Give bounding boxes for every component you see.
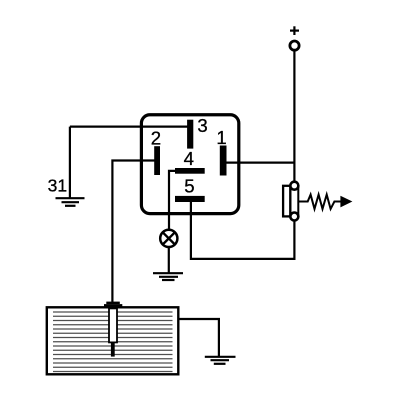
svg-text:31: 31 [48,176,67,196]
spring actuator [299,195,342,209]
wire tank right to ground [178,319,219,357]
svg-text:2: 2 [151,128,161,149]
wire pin2 to left and down to sensor [112,161,157,303]
svg-text:1: 1 [216,127,226,148]
wire pin4 down to lamp [169,171,175,230]
wire switch bottom to pin5 [191,201,295,259]
svg-text:3: 3 [197,115,207,136]
plus sign [290,26,299,35]
switch bracket [283,186,290,217]
wire lamp to ground [168,248,170,273]
sensor flange base [104,304,122,307]
lamp L1 [160,230,177,247]
pin 4 [175,168,205,174]
wire pin1 to right junction [227,162,295,164]
ground 31 [56,198,85,206]
battery terminal circle [290,41,299,50]
pin 5 [175,196,205,202]
svg-text:4: 4 [184,148,194,169]
switch terminal bottom [290,213,298,221]
sensor flange top [106,302,120,305]
switch S1 capsule tube [290,186,298,217]
sensor body [109,308,117,342]
svg-text:5: 5 [184,176,194,197]
wire down to ground 31 [69,127,71,198]
switch terminal top [290,182,298,190]
pin 1 [220,146,227,176]
arrow head [340,196,352,208]
ground bottom right [205,357,236,364]
tank body [47,307,179,374]
relay K1 body [141,115,238,214]
sensor needle [111,343,115,357]
wire plus down to switch [293,52,295,183]
wire pin3 to left [70,125,190,127]
pin 2 [154,146,160,175]
pin 3 [187,120,193,149]
tank liquid hatch [53,312,173,372]
ground below lamp [153,273,183,280]
